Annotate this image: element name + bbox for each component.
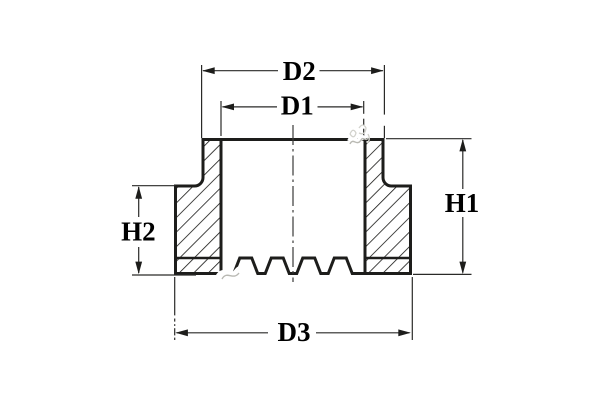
- svg-text:D2: D2: [283, 56, 316, 86]
- svg-text:H2: H2: [121, 217, 156, 247]
- svg-text:D1: D1: [281, 90, 314, 120]
- svg-text:D3: D3: [278, 317, 311, 347]
- svg-text:H1: H1: [445, 188, 480, 218]
